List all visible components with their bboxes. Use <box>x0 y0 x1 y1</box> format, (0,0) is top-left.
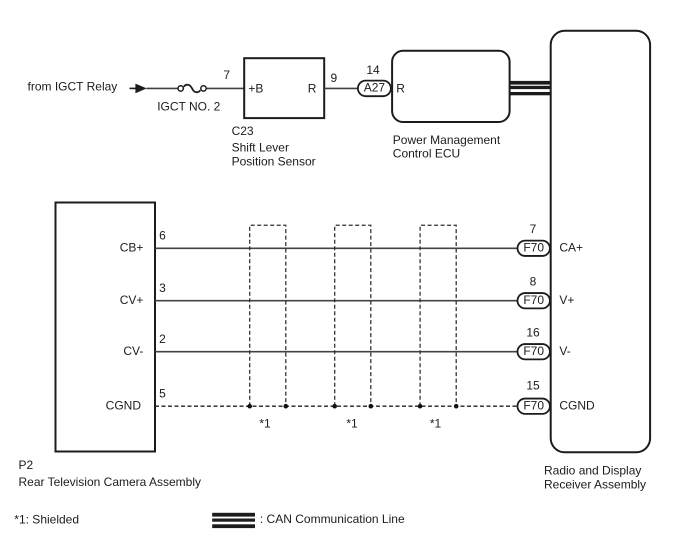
svg-text:F70: F70 <box>523 344 544 358</box>
svg-text:CV-: CV- <box>123 344 143 358</box>
svg-text:Position Sensor: Position Sensor <box>232 154 316 168</box>
svg-text:R: R <box>396 81 405 95</box>
svg-text:*1: *1 <box>259 417 271 431</box>
svg-text:CA+: CA+ <box>559 241 583 255</box>
svg-text:: CAN Communication Line: : CAN Communication Line <box>260 512 405 526</box>
svg-text:A27: A27 <box>364 81 386 95</box>
svg-text:V-: V- <box>559 344 570 358</box>
svg-text:R: R <box>308 81 317 95</box>
svg-text:+B: +B <box>248 81 263 95</box>
svg-text:CGND: CGND <box>559 399 595 413</box>
svg-text:V+: V+ <box>559 293 574 307</box>
svg-text:Power Management: Power Management <box>393 133 501 147</box>
svg-text:CGND: CGND <box>106 398 142 412</box>
svg-text:from IGCT Relay: from IGCT Relay <box>28 80 118 94</box>
svg-text:P2: P2 <box>19 458 34 472</box>
svg-text:IGCT NO. 2: IGCT NO. 2 <box>157 100 220 114</box>
svg-text:F70: F70 <box>523 293 544 307</box>
svg-text:F70: F70 <box>523 241 544 255</box>
svg-text:8: 8 <box>530 275 537 289</box>
svg-text:C23: C23 <box>232 124 254 138</box>
svg-text:7: 7 <box>530 222 537 236</box>
svg-text:Radio and Display: Radio and Display <box>544 463 641 477</box>
svg-text:Receiver Assembly: Receiver Assembly <box>544 477 646 491</box>
svg-text:Control ECU: Control ECU <box>393 146 460 160</box>
svg-text:*1: Shielded: *1: Shielded <box>14 512 79 526</box>
svg-text:*1: *1 <box>346 417 358 431</box>
svg-text:9: 9 <box>331 71 338 85</box>
svg-text:7: 7 <box>223 68 230 82</box>
svg-text:CV+: CV+ <box>120 293 144 307</box>
svg-text:16: 16 <box>526 326 540 340</box>
svg-text:CB+: CB+ <box>120 241 144 255</box>
svg-text:6: 6 <box>159 228 166 242</box>
svg-text:15: 15 <box>526 379 540 393</box>
svg-text:2: 2 <box>159 332 166 346</box>
svg-text:3: 3 <box>159 281 166 295</box>
svg-text:5: 5 <box>159 386 166 400</box>
svg-text:14: 14 <box>366 63 380 77</box>
svg-text:*1: *1 <box>430 417 442 431</box>
svg-text:Rear Television Camera Assembl: Rear Television Camera Assembly <box>19 475 202 489</box>
svg-text:Shift Lever: Shift Lever <box>232 140 289 154</box>
svg-text:F70: F70 <box>523 398 544 412</box>
